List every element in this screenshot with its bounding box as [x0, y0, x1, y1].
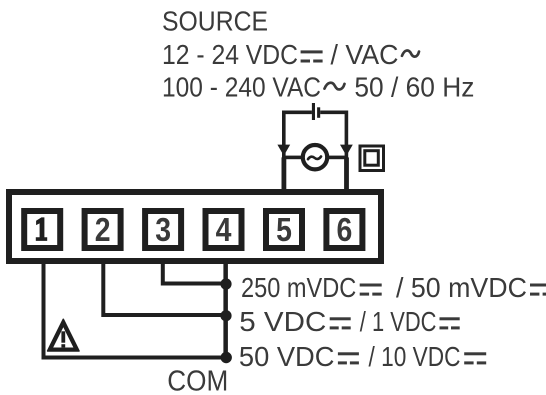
value label / 1 VDC: [360, 306, 437, 337]
value label 100 - 240 VAC: [162, 72, 321, 103]
DC symbol (line B1): [330, 317, 351, 329]
svg-text:/ 10 VDC: / 10 VDC: [369, 341, 461, 372]
wire from terminal 1 to COM bus: [44, 259, 227, 358]
node COM label: [167, 366, 228, 395]
value label 50 / 60 Hz: [354, 72, 474, 103]
terminal 4: [206, 211, 242, 248]
warning triangle symbol: [48, 319, 79, 351]
wire horizontal through AC source: [282, 156, 348, 160]
svg-text:4: 4: [216, 211, 232, 248]
svg-text:12 - 24 VDC: 12 - 24 VDC: [162, 39, 298, 70]
svg-text:COM: COM: [167, 366, 228, 395]
terminal block outline: [9, 192, 381, 261]
value label 250 mVDC: [241, 272, 356, 303]
wire right drop to terminal 6: [344, 157, 349, 193]
AC symbol (line 2): [402, 50, 419, 56]
svg-text:/ 1 VDC: / 1 VDC: [360, 306, 437, 337]
DC symbol (line A1): [360, 284, 382, 296]
value label 50 VDC: [239, 341, 335, 372]
svg-text:3: 3: [155, 211, 171, 248]
terminal 6: [326, 211, 362, 248]
svg-text:6: 6: [337, 211, 353, 248]
node 250 mVDC junction: [220, 278, 231, 289]
node 5 VDC junction: [220, 310, 231, 321]
svg-text:/ 50 mVDC: / 50 mVDC: [396, 272, 527, 303]
svg-text:50 / 60 Hz: 50 / 60 Hz: [354, 72, 474, 103]
wire bus from terminal 4 down to COM: [223, 259, 228, 358]
terminal 1: [24, 211, 60, 248]
svg-text:SOURCE: SOURCE: [162, 6, 268, 37]
DC symbol (line 2): [301, 50, 323, 62]
svg-text:/ VAC: / VAC: [331, 39, 399, 70]
DC symbol (line B2): [440, 317, 460, 329]
value label / VAC: [331, 39, 399, 70]
svg-text:5: 5: [276, 211, 292, 248]
svg-text:2: 2: [95, 211, 111, 248]
class II double-insulation symbol: [360, 146, 384, 171]
AC symbol (line 3): [325, 83, 345, 90]
terminal 5: [266, 211, 302, 248]
svg-text:100 - 240 VAC: 100 - 240 VAC: [162, 72, 321, 103]
arrowhead right (into terminal 6 branch): [340, 145, 353, 156]
value label 12 - 24 VDC: [162, 39, 298, 70]
svg-text:250 mVDC: 250 mVDC: [241, 272, 356, 303]
node SOURCE label: [162, 6, 268, 37]
wire top-right from battery to right drop: [320, 112, 346, 158]
value label 5 VDC: [239, 306, 326, 337]
DC symbol (line A2): [530, 284, 546, 296]
DC symbol (line C2): [464, 352, 486, 364]
arrowhead left (into terminal 5 branch): [277, 145, 290, 156]
value label / 50 mVDC: [396, 272, 527, 303]
wire from terminal 3 to 250 mVDC node: [163, 259, 226, 284]
AC source G1: [303, 145, 327, 169]
node COM junction: [221, 352, 232, 363]
svg-text:5 VDC: 5 VDC: [239, 306, 326, 337]
svg-text:50 VDC: 50 VDC: [239, 341, 335, 372]
value label / 10 VDC: [369, 341, 461, 372]
wire from terminal 2 to 5 VDC node: [103, 259, 226, 315]
wire top-left from battery to left drop: [284, 112, 312, 158]
battery B1: [312, 103, 320, 120]
terminal 3: [145, 211, 181, 248]
wire left drop to terminal 5: [282, 157, 287, 193]
DC symbol (line C1): [338, 352, 359, 364]
terminal 2: [85, 211, 121, 248]
